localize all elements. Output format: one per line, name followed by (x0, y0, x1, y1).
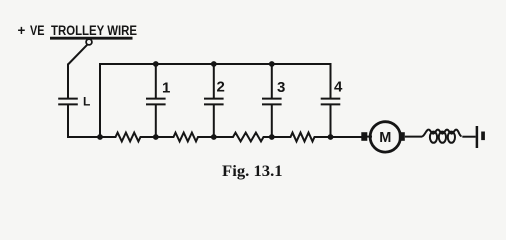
svg-text:M: M (379, 130, 391, 146)
svg-text:Fig. 13.1: Fig. 13.1 (222, 163, 283, 180)
svg-text:+: + (18, 23, 26, 38)
svg-text:3: 3 (277, 79, 285, 96)
svg-text:TROLLEY WIRE: TROLLEY WIRE (51, 23, 137, 38)
svg-text:4: 4 (334, 79, 343, 96)
svg-text:2: 2 (217, 79, 225, 96)
svg-text:1: 1 (162, 80, 170, 97)
svg-text:L: L (83, 95, 90, 109)
svg-text:VE: VE (30, 23, 45, 38)
